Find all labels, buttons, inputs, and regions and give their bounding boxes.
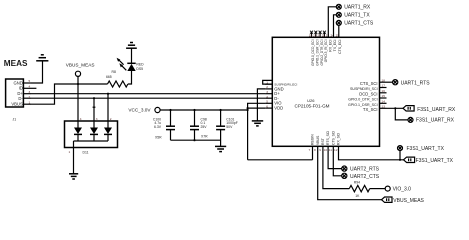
offpage tag VBUS_MEAS xyxy=(382,197,425,204)
svg-text:3: 3 xyxy=(29,90,31,94)
testpoint VCC_3.0V xyxy=(128,107,160,112)
svg-text:VDD: VDD xyxy=(274,106,283,111)
connector J1 xyxy=(6,79,31,122)
svg-text:MEAS: MEAS xyxy=(4,59,28,68)
resistor R94 1K xyxy=(349,181,369,198)
wire R94 to VIO_3.0 xyxy=(370,188,386,190)
node VBUS junction xyxy=(77,83,79,85)
IC U26 CP2105-F01-GM xyxy=(265,31,386,152)
svg-text:RST: RST xyxy=(321,138,325,145)
svg-text:2: 2 xyxy=(29,95,31,99)
svg-text:CTS_ECI: CTS_ECI xyxy=(338,39,342,53)
ground (U26 GND) xyxy=(252,121,263,126)
connector circle F3S1_UART_RX xyxy=(408,117,455,123)
svg-text:21: 21 xyxy=(317,34,321,38)
svg-text:F3S1_UART_RX: F3S1_UART_RX xyxy=(416,118,455,124)
connector circle F3S1_UART_TX xyxy=(398,146,445,153)
connector circle UART1_TX xyxy=(336,12,370,18)
svg-text:REGIN: REGIN xyxy=(311,134,315,145)
TVS diode array D11 xyxy=(65,117,118,155)
node D- junction to TVS pin3 xyxy=(93,97,95,99)
svg-text:CP2105-F01-GM: CP2105-F01-GM xyxy=(295,104,330,109)
wire VBUS pin8 xyxy=(318,146,382,199)
wire UART1_CTS xyxy=(338,26,340,38)
svg-text:17: 17 xyxy=(382,84,386,88)
svg-text:RED: RED xyxy=(136,62,144,66)
wire VCC rail xyxy=(160,109,248,111)
wire UART2_RTS pin10 xyxy=(328,146,342,168)
wire U26 GND pin2 to ground xyxy=(257,89,265,121)
svg-text:19: 19 xyxy=(309,34,313,38)
svg-text:RX_ECI: RX_ECI xyxy=(328,39,332,51)
svg-text:13: 13 xyxy=(382,105,386,109)
svg-text:VIO_3.0: VIO_3.0 xyxy=(393,186,412,192)
svg-text:UART2_CTS: UART2_CTS xyxy=(350,174,380,180)
svg-text:1: 1 xyxy=(29,100,31,104)
connector circle UART1_RTS xyxy=(393,80,431,87)
svg-text:4: 4 xyxy=(266,95,268,99)
wire GND to ground xyxy=(31,61,43,83)
wire ID stub xyxy=(31,87,36,89)
testpoint VBUS_MEAS xyxy=(66,63,95,84)
svg-text:VBUS: VBUS xyxy=(11,102,23,107)
svg-text:5: 5 xyxy=(266,100,268,104)
wire UART2_CTS pin11 xyxy=(333,146,341,176)
svg-text:VBUS_MEAS: VBUS_MEAS xyxy=(66,63,95,68)
svg-text:665: 665 xyxy=(106,75,112,79)
wire TVS pin1 to ground xyxy=(73,141,75,174)
connector circle UART2_CTS xyxy=(342,173,380,180)
svg-text:2: 2 xyxy=(266,85,268,89)
svg-text:14: 14 xyxy=(382,100,386,104)
connector circle VIO_3.0 xyxy=(385,186,411,192)
svg-text:3: 3 xyxy=(96,117,98,121)
svg-text:CTS_SCI: CTS_SCI xyxy=(331,131,335,145)
svg-text:CTS_SCI: CTS_SCI xyxy=(360,81,378,86)
svg-text:UART1_TX: UART1_TX xyxy=(344,13,370,19)
svg-text:D-: D- xyxy=(18,96,23,101)
svg-text:U26: U26 xyxy=(307,98,315,103)
svg-text:F3S1_UART_RX: F3S1_UART_RX xyxy=(417,107,456,113)
svg-text:J1: J1 xyxy=(13,118,17,122)
svg-text:20: 20 xyxy=(313,34,317,38)
capacitor C101 xyxy=(216,109,238,146)
svg-text:GPIO.0_DTR_SCI: GPIO.0_DTR_SCI xyxy=(348,98,377,102)
svg-text:F3S1_UART_TX: F3S1_UART_TX xyxy=(416,158,454,164)
ground (inverted, above LED) xyxy=(126,43,137,49)
wire U26 pin1 stub xyxy=(263,80,273,84)
svg-text:D11: D11 xyxy=(83,151,89,155)
svg-text:RTS_SCI: RTS_SCI xyxy=(326,131,330,145)
svg-text:DS5: DS5 xyxy=(136,67,143,71)
right pin stubs 18-13 xyxy=(380,81,387,83)
svg-text:12: 12 xyxy=(334,148,338,152)
svg-text:16: 16 xyxy=(382,89,386,93)
wire D- to TVS xyxy=(93,98,95,127)
svg-text:TX_SCI: TX_SCI xyxy=(363,107,378,112)
wire VDD to VCC xyxy=(248,107,266,109)
wire UART1_TX xyxy=(334,15,337,38)
svg-text:2: 2 xyxy=(110,117,112,121)
svg-text:X5R: X5R xyxy=(155,135,162,139)
svg-text:R8: R8 xyxy=(112,70,116,74)
wire UART1_RTS xyxy=(387,81,393,83)
wire VBUS xyxy=(31,84,108,104)
wire to circle F3S1_UART_TX xyxy=(399,151,401,160)
LED DS5 RED xyxy=(117,48,145,71)
svg-text:R94: R94 xyxy=(354,181,360,185)
top pin stubs with no-connects xyxy=(311,32,313,37)
capacitor C100 xyxy=(153,109,175,140)
node pin13 branch xyxy=(394,107,396,109)
svg-text:UART1_RX: UART1_RX xyxy=(344,5,371,11)
svg-text:4: 4 xyxy=(80,117,82,121)
svg-text:ID: ID xyxy=(19,86,23,91)
resistor R8 665 (LED series) xyxy=(106,70,128,87)
svg-text:1K: 1K xyxy=(355,194,360,198)
svg-text:UART1_CTS: UART1_CTS xyxy=(344,21,374,27)
svg-text:25V: 25V xyxy=(201,125,208,129)
wire tick xyxy=(93,106,96,108)
wire resistor to LED xyxy=(128,71,132,84)
wire TX_SCI pin13 xyxy=(387,107,404,109)
svg-text:TX_ECI: TX_ECI xyxy=(333,39,337,51)
svg-text:UART1_RTS: UART1_RTS xyxy=(401,80,431,86)
svg-text:50V: 50V xyxy=(226,125,233,129)
svg-text:9: 9 xyxy=(319,148,321,152)
wire RST pin9 to R94 xyxy=(323,146,349,188)
svg-text:7: 7 xyxy=(309,148,311,152)
svg-text:GND: GND xyxy=(13,80,22,85)
svg-text:VCC_3.0V: VCC_3.0V xyxy=(128,108,151,113)
svg-text:18: 18 xyxy=(382,78,386,82)
ground (C101) xyxy=(215,146,226,151)
wire VBUS to TVS pin4 xyxy=(77,84,79,128)
svg-text:VBUS: VBUS xyxy=(316,135,320,145)
left pin stubs 1-6 xyxy=(265,83,272,85)
wire D+ (J1 to U26 pin3) xyxy=(31,93,265,95)
svg-text:1: 1 xyxy=(266,80,268,84)
svg-text:4: 4 xyxy=(29,85,31,89)
svg-text:11: 11 xyxy=(329,148,332,152)
wire D+ to TVS xyxy=(107,94,109,128)
offpage tag F3S1_UART_TX xyxy=(404,157,454,164)
capacitor C98 xyxy=(190,109,208,140)
svg-text:3: 3 xyxy=(266,90,268,94)
svg-text:8: 8 xyxy=(314,148,316,152)
svg-text:6.3V: 6.3V xyxy=(154,125,162,129)
offpage tag F3S1_UART_RX xyxy=(403,106,456,113)
connector circle UART2_RTS xyxy=(342,166,380,173)
svg-text:5: 5 xyxy=(29,79,31,83)
ground (TVS) xyxy=(69,174,78,179)
connector circle UART1_CTS xyxy=(336,20,374,26)
ground (inverted, at J1 GND) xyxy=(36,55,48,61)
node pin12 branch xyxy=(399,159,401,161)
svg-text:UART2_RTS: UART2_RTS xyxy=(350,167,380,173)
wire VCC down to REGIN xyxy=(248,159,313,161)
svg-text:10: 10 xyxy=(324,148,328,152)
wire RX_SCI pin12 xyxy=(339,146,404,160)
svg-text:F3S1_UART_TX: F3S1_UART_TX xyxy=(407,146,445,152)
connector circle UART1_RX xyxy=(336,4,371,10)
wire to circle F3S1_UART_RX xyxy=(395,108,408,120)
wire VIO to VCC xyxy=(248,103,266,160)
svg-text:6: 6 xyxy=(266,104,268,108)
svg-text:VBUS_MEAS: VBUS_MEAS xyxy=(393,198,424,204)
svg-text:RX_SCI: RX_SCI xyxy=(337,133,341,145)
svg-text:1: 1 xyxy=(69,150,71,154)
svg-text:X7R: X7R xyxy=(201,134,208,138)
svg-text:DCD_SCI: DCD_SCI xyxy=(359,91,377,96)
wire UART1_RX xyxy=(328,7,336,38)
wire cap bottom rail xyxy=(171,139,221,141)
svg-text:15: 15 xyxy=(382,94,386,98)
wire REGIN pin7 xyxy=(312,146,314,160)
node D+ junction to TVS pin2 xyxy=(107,93,109,95)
wire D- (J1 to U26 pin4) xyxy=(31,97,265,99)
